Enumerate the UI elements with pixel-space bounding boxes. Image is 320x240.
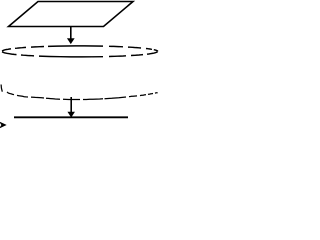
wire: arrow 2 stem (70, 97, 72, 113)
small right-pointing arrowhead (0, 122, 6, 127)
dashed shallow arc (1, 85, 158, 100)
wire: arrow 1 stem (70, 27, 72, 40)
arrow 1 head (68, 39, 75, 44)
dashed ellipse (2, 46, 158, 57)
arrow 2 head (68, 112, 74, 117)
bottom line (14, 116, 128, 118)
parallelogram (input/output box) (9, 2, 134, 27)
